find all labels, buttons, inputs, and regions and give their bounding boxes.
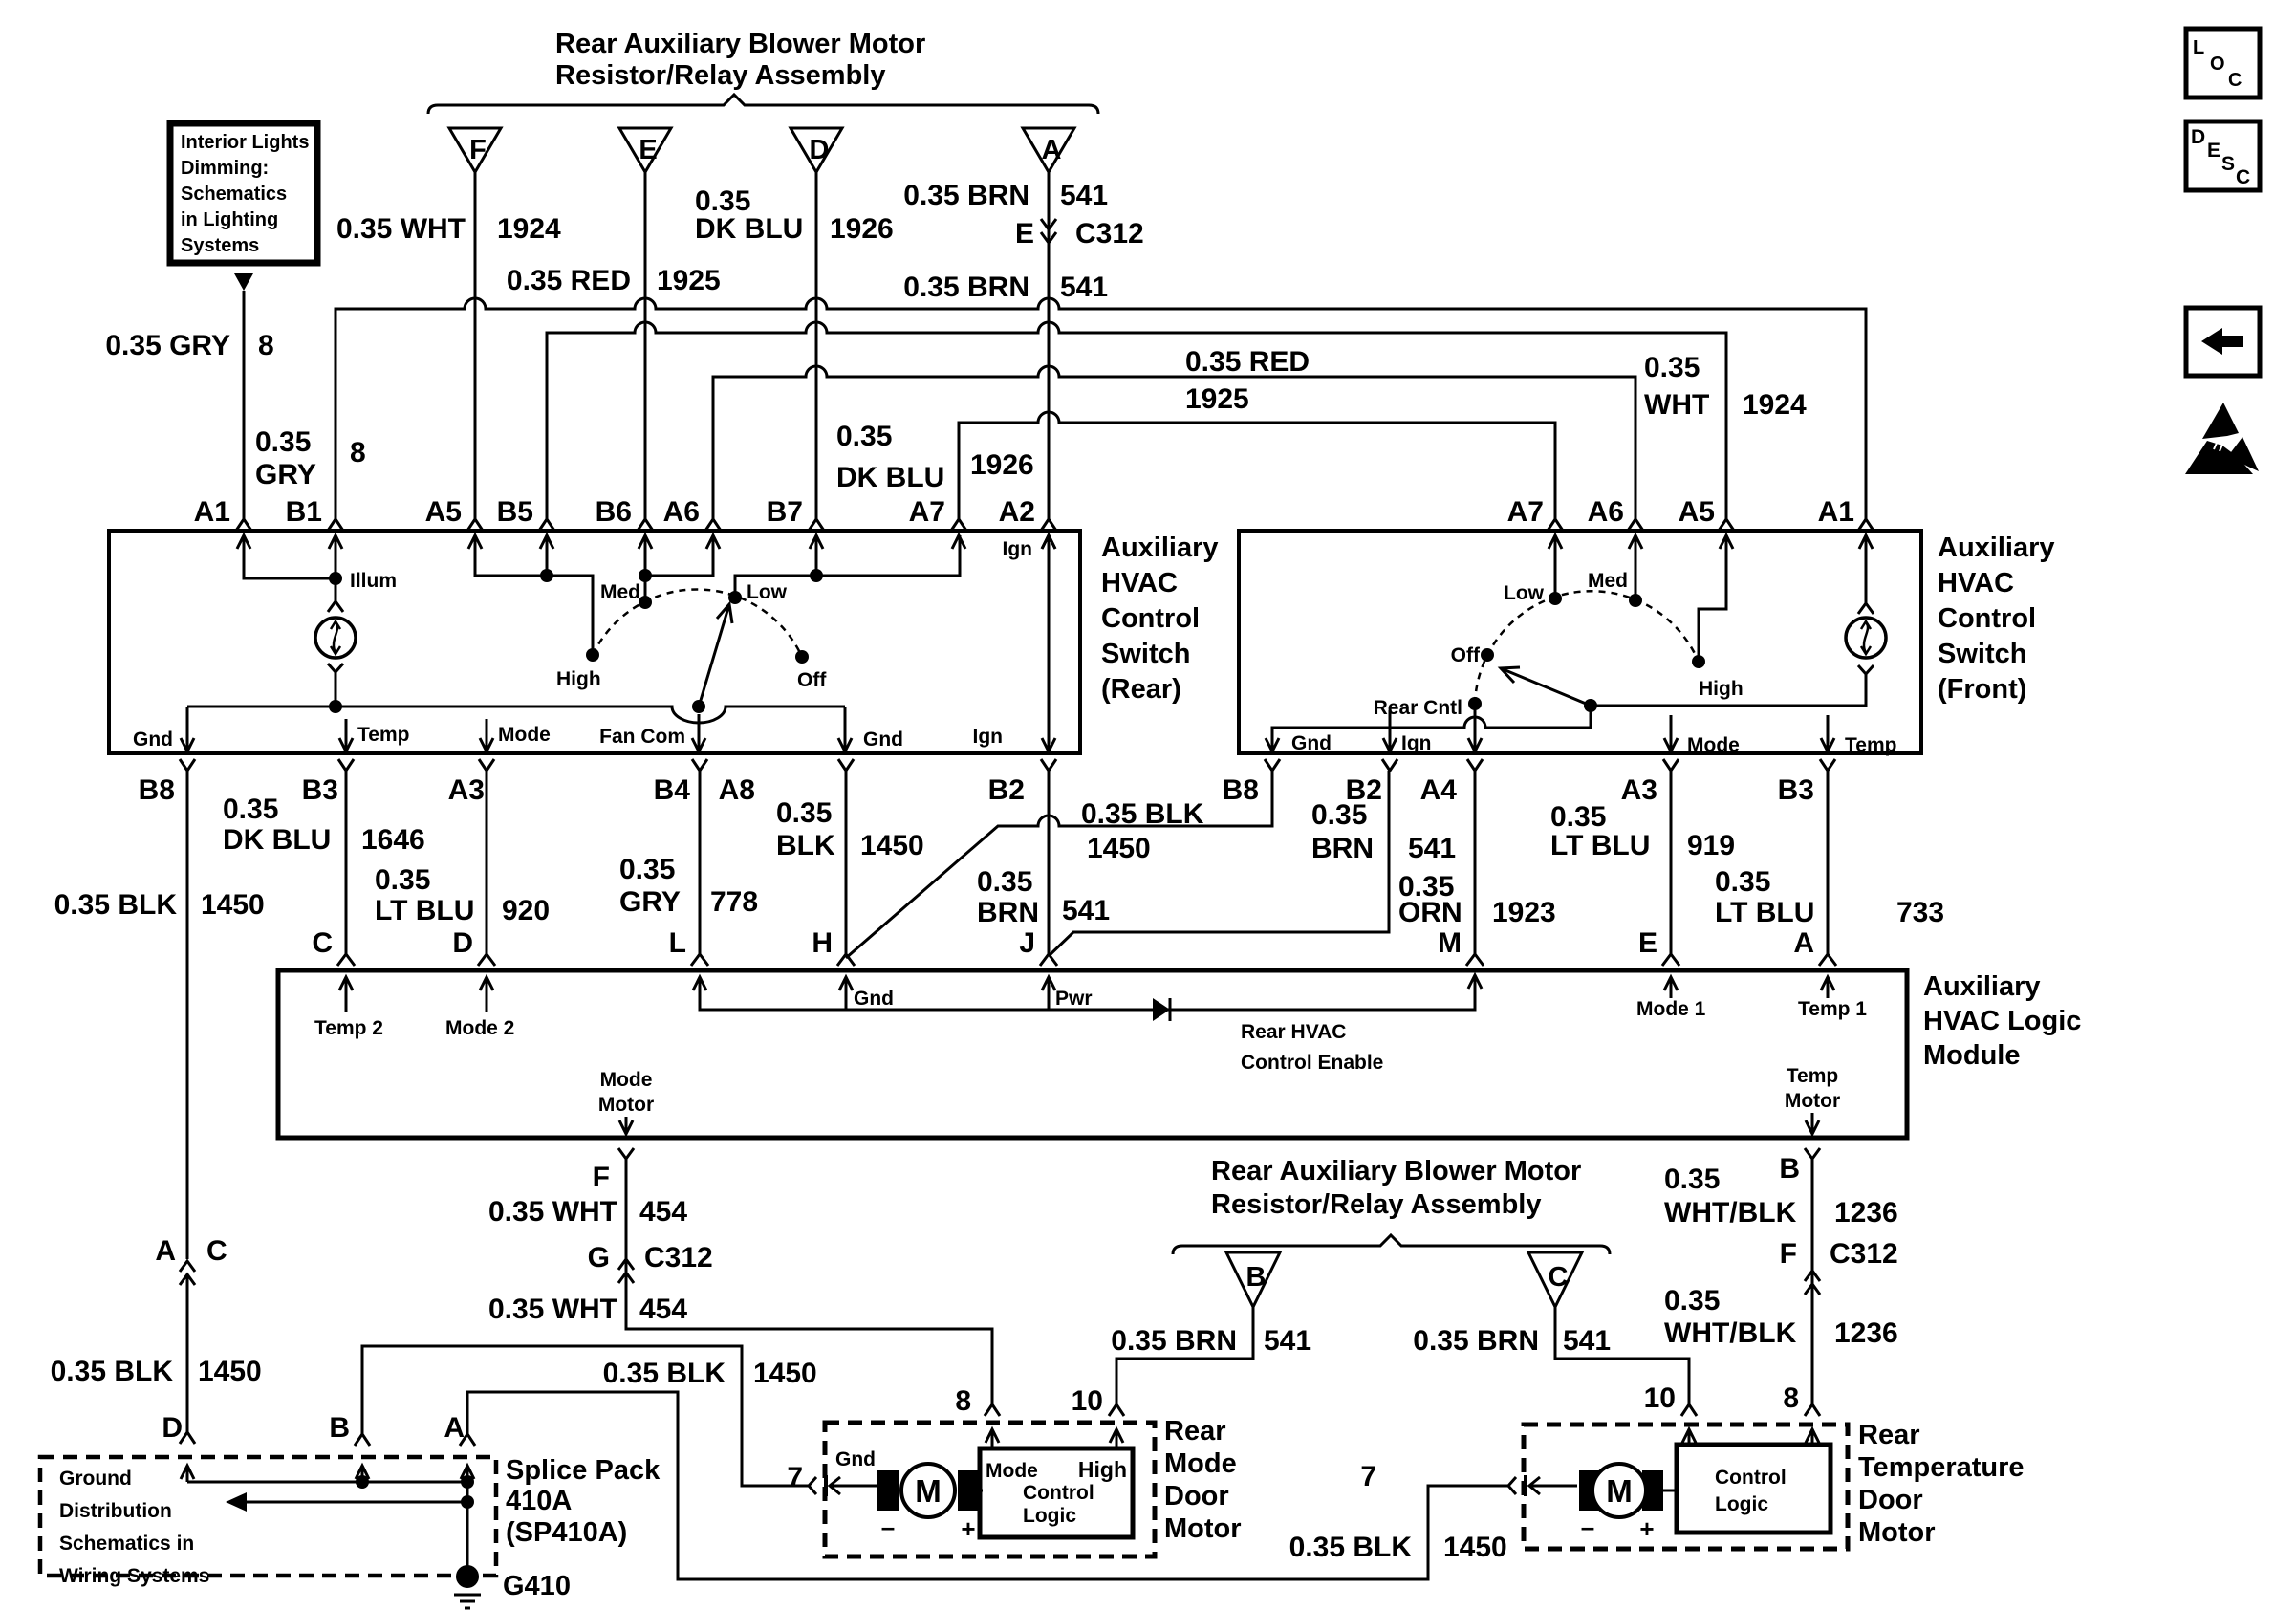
svg-text:454: 454 [639,1196,687,1228]
svg-text:1236: 1236 [1834,1317,1898,1349]
svg-text:Rear Auxiliary Blower Motor: Rear Auxiliary Blower Motor [1211,1156,1581,1186]
svg-text:541: 541 [1062,895,1110,926]
Mode Control Logic box [980,1448,1133,1537]
svg-text:733: 733 [1896,897,1944,928]
svg-text:Off: Off [1451,644,1481,666]
svg-text:Rear: Rear [1164,1416,1226,1447]
wire A6 front to Med contact [1635,535,1637,600]
pin F module bottom [593,1162,610,1193]
svg-text:B3: B3 [1778,774,1814,806]
selector wiper arrow front fan switch [1501,667,1591,706]
svg-text:High: High [1078,1457,1127,1482]
Rear Mode Door Motor dashed box M-mode [825,1423,1155,1556]
pin A5 rear switch top [425,496,483,549]
svg-text:Logic: Logic [1715,1493,1768,1515]
motor M temp door [1579,1464,1663,1517]
svg-text:WHT: WHT [1644,389,1709,421]
svg-text:1926: 1926 [830,213,894,245]
Control Logic box temp [1677,1445,1830,1533]
label Auxiliary HVAC Logic Module [1923,971,2081,1071]
rotary contact arc front fan switch S-front [1475,591,1699,704]
svg-text:Schematics: Schematics [181,184,287,205]
node B6 junction [639,569,652,582]
svg-text:0.35: 0.35 [375,864,430,896]
svg-text:Wiring Systems: Wiring Systems [59,1565,209,1587]
wire B6/A6 to Med contact [645,535,713,602]
Auxiliary HVAC Control Switch (Front) box U-front [1239,531,1921,753]
connector triangle A (Rear Auxiliary Blower Motor Resistor/Relay Assembly) [1023,128,1074,172]
label 0.35 DK BLU 1646 [223,794,425,856]
svg-text:B3: B3 [302,774,338,806]
svg-text:High: High [556,668,601,690]
label 0.35 DK BLU 1926 (A7 wire) [836,421,1034,493]
svg-text:Switch: Switch [1101,639,1190,669]
node Illum junction [329,570,397,592]
svg-text:A7: A7 [909,496,945,528]
wire splice bus D-B-A [187,1481,467,1484]
svg-text:A: A [1042,135,1062,165]
svg-text:0.35 GRY: 0.35 GRY [105,330,230,361]
pin Pwr module internal arrow [1042,977,1093,1010]
wire 919 LT BLU front A3 to module E [1670,771,1673,954]
svg-text:Motor: Motor [1164,1513,1242,1544]
svg-text:–: – [881,1512,895,1541]
svg-text:1925: 1925 [657,265,721,296]
svg-text:E: E [639,135,657,165]
svg-text:0.35 BRN: 0.35 BRN [1111,1325,1237,1357]
motor M mode door [877,1464,979,1517]
brace top resistor/relay assembly [428,95,1098,114]
svg-text:8: 8 [350,437,366,468]
wire lamp to gnd bus [328,664,343,707]
svg-text:1450: 1450 [1087,833,1151,864]
svg-text:BLK: BLK [776,830,835,861]
label 0.35 WHT 454 (lower) [488,1294,687,1325]
pin B1 rear switch top [286,496,343,549]
svg-text:0.35: 0.35 [776,797,832,829]
svg-text:A1: A1 [1818,496,1854,528]
connector triangle C (Rear Auxiliary Blower Motor Resistor/Relay Assembly) [1528,1252,1582,1307]
svg-text:Low: Low [1504,582,1545,604]
svg-text:Motor: Motor [598,1094,654,1116]
svg-text:D: D [162,1412,183,1444]
svg-text:Gnd: Gnd [863,729,903,751]
svg-text:1925: 1925 [1185,383,1249,415]
svg-text:778: 778 [710,886,758,918]
svg-text:0.35: 0.35 [1715,866,1770,898]
pin B2 rear switch bottom [988,759,1056,806]
pin 10 mode door motor [1072,1385,1124,1448]
svg-text:HVAC: HVAC [1938,568,2014,598]
node splice B junction [356,1475,369,1489]
Rear Temperature Door Motor dashed box M-temp [1524,1425,1848,1549]
svg-text:WHT/BLK: WHT/BLK [1664,1197,1797,1229]
wire 541 BRN module J to front B2 [1049,771,1389,956]
pin A5 front switch top [1679,496,1734,549]
wire 733 LT BLU front B3 to module A [1827,771,1830,954]
svg-text:Gnd: Gnd [854,988,894,1010]
pin Fan Com internal arrow [599,714,705,751]
svg-text:1450: 1450 [201,889,265,921]
svg-text:541: 541 [1060,272,1108,303]
wire A1 illum link [244,535,336,578]
svg-text:B8: B8 [1223,774,1259,806]
label 0.35 RED 1925 (row3 wire) [1185,346,1310,415]
wire A7 front to Low contact [1554,535,1557,598]
svg-text:0.35: 0.35 [977,866,1032,898]
pin B2 front switch bottom [1346,759,1397,806]
wire 8 GRY from Interior Lights ref to rear A1 [243,291,246,519]
svg-text:HVAC Logic: HVAC Logic [1923,1006,2081,1036]
connector triangle B (Rear Auxiliary Blower Motor Resistor/Relay Assembly) [1226,1252,1280,1307]
svg-text:0.35 BLK: 0.35 BLK [1289,1532,1413,1563]
label 0.35 LT BLU 920 [375,864,550,926]
node B5 junction [540,569,553,582]
label 0.35 BRN 541 (B2 wire) [977,866,1110,928]
label 0.35 ORN 1923 [1398,871,1556,928]
svg-text:0.35: 0.35 [223,794,278,825]
svg-text:E: E [2207,140,2220,162]
wire 1925 RED triangle E to rear B6 [644,172,647,519]
svg-text:Med: Med [1588,570,1628,592]
node B7 junction [810,569,823,582]
svg-text:1450: 1450 [860,830,924,861]
node Low contact [728,581,788,604]
svg-text:B1: B1 [286,496,322,528]
pin Temp rear internal arrow [339,719,409,751]
svg-text:A6: A6 [663,496,700,528]
pin A module top [1793,927,1836,966]
diode rear hvac control enable [1153,998,1170,1021]
svg-text:C312: C312 [1830,1238,1898,1270]
pin E module top [1638,927,1679,966]
svg-text:Mode 1: Mode 1 [1636,998,1706,1020]
svg-text:A4: A4 [1420,774,1458,806]
svg-text:BRN: BRN [1311,833,1374,864]
node Rear Cntl contact [1374,697,1482,719]
svg-text:in Lighting: in Lighting [181,209,278,230]
svg-text:M: M [915,1473,942,1509]
label 0.35 BLK 1450 (B8 wire lower) [51,1356,262,1387]
pin A1 rear switch top [194,496,251,549]
svg-text:1450: 1450 [1443,1532,1507,1563]
label Auxiliary HVAC Control Switch (Front) [1938,533,2055,705]
svg-text:LT BLU: LT BLU [375,895,474,926]
svg-text:A1: A1 [194,496,230,528]
wire mode motor to control logic [979,1490,983,1492]
label 0.35 WHT 1924 (front A5 wire) [1644,352,1807,421]
label 0.35 BRN 541 (C triangle wire) [1413,1325,1611,1357]
svg-text:Temp 1: Temp 1 [1798,998,1867,1020]
svg-text:D: D [452,927,473,959]
pin Temp front internal arrow [1821,715,1896,756]
svg-text:0.35 RED: 0.35 RED [507,265,631,296]
svg-text:F: F [593,1162,610,1193]
svg-text:Interior Lights: Interior Lights [181,132,309,153]
svg-text:DK BLU: DK BLU [223,824,331,856]
svg-text:Ign: Ign [973,726,1004,748]
pin A3 rear switch bottom [448,759,494,806]
node pivot front [1584,699,1597,712]
svg-text:Control: Control [1938,603,2036,634]
icon back arrow box [2186,308,2260,376]
pin B module bottom [1779,1153,1800,1185]
Auxiliary HVAC Control Switch (Rear) box U-rear [109,531,1080,753]
svg-text:C: C [2228,70,2242,91]
svg-text:A6: A6 [1588,496,1624,528]
pin A1 front switch top [1818,496,1874,549]
svg-text:L: L [2193,37,2204,58]
svg-text:0.35 BRN: 0.35 BRN [1413,1325,1539,1357]
wire front Gnd to pivot (hops A4) [1266,706,1591,754]
svg-text:Gnd: Gnd [133,729,173,751]
wire row3: rear A6 to front A6 (1925 RED) [713,366,1635,519]
pin Gnd rear left internal arrow [133,707,194,751]
svg-text:Ign: Ign [1003,538,1033,560]
pin Temp 1 module internal arrow [1798,977,1867,1020]
svg-text:1923: 1923 [1492,897,1556,928]
svg-text:Dimming:: Dimming: [181,158,269,179]
svg-text:7: 7 [787,1462,803,1493]
svg-text:S: S [2221,153,2235,175]
pin M module top [1438,927,1484,966]
connector C312 pin F on wire 1236 [1780,1238,1898,1295]
selector wiper arrow rear fan switch [699,604,732,707]
svg-text:Mode: Mode [498,724,551,746]
svg-text:Distribution: Distribution [59,1500,172,1522]
pin L module top [669,927,708,966]
svg-text:A5: A5 [425,496,462,528]
wire A5 front to High contact [1699,535,1726,662]
wire illum to lamp [328,578,343,612]
label 0.35 LT BLU 919 [1550,801,1735,861]
svg-text:919: 919 [1687,830,1735,861]
pin B3 front switch bottom [1778,759,1835,806]
wire 778 GRY rear B4 to module L [699,771,702,954]
wire 920 LT BLU rear A3 to module D [486,771,488,954]
node lamp gnd junction [329,700,342,713]
svg-text:J: J [1019,927,1035,959]
svg-text:541: 541 [1060,180,1108,211]
svg-text:0.35 RED: 0.35 RED [1185,346,1310,378]
svg-text:Rear HVAC: Rear HVAC [1241,1021,1346,1043]
pin A3 front switch bottom [1621,759,1679,806]
svg-text:0.35 BLK: 0.35 BLK [54,889,178,921]
svg-text:Motor: Motor [1785,1090,1840,1112]
svg-text:Control: Control [1101,603,1200,634]
wire 1450 BLK rear A8 to module H [845,771,848,954]
icon DESC box [2186,121,2260,190]
svg-text:C312: C312 [644,1242,713,1273]
off-page ground arrow [226,1492,467,1512]
svg-text:B: B [329,1412,350,1444]
svg-text:Fan Com: Fan Com [599,726,685,748]
svg-text:A: A [1793,927,1814,959]
wire 1450 BLK connector C to splice D [186,1274,189,1432]
svg-text:Ground: Ground [59,1468,132,1490]
svg-text:0.35 BLK: 0.35 BLK [51,1356,174,1387]
wire A4 Rear Cntl to pin [1468,704,1482,751]
wire 541 BRN triangle A to rear A2 [1048,172,1051,519]
pin A7 rear switch top [909,496,966,549]
svg-text:10: 10 [1644,1382,1676,1414]
svg-text:Resistor/Relay Assembly: Resistor/Relay Assembly [1211,1189,1541,1220]
pin A6 rear switch top [663,496,721,549]
svg-text:A2: A2 [999,496,1035,528]
wire row1: rear B1 to front A1 (8 GRY) [336,298,1866,519]
svg-text:M: M [1606,1473,1633,1509]
svg-text:Gnd: Gnd [1291,732,1332,754]
pin A6 front switch top [1588,496,1643,549]
svg-text:High: High [1699,678,1744,700]
svg-text:A7: A7 [1507,496,1544,528]
pin Mode 1 module internal arrow [1636,977,1706,1020]
pin Ign front internal arrow [1383,710,1432,754]
label bottom title Rear Auxiliary Blower Motor Resistor/Relay Assembly [1211,1156,1581,1220]
pin B4 rear switch bottom [654,759,707,806]
svg-text:Door: Door [1164,1481,1229,1512]
pin Temp Motor module internal arrow [1785,1065,1840,1134]
node High contact front [1692,655,1744,700]
svg-text:B: B [1779,1153,1800,1185]
label minus plus temp motor [1581,1512,1655,1543]
svg-text:Rear Cntl: Rear Cntl [1374,697,1462,719]
wire 541 BRN triangle B to mode motor pin 10 [1116,1307,1253,1404]
label Rear Temperature Door Motor [1858,1420,2025,1548]
svg-text:F: F [469,135,487,165]
svg-text:H: H [812,927,833,959]
svg-text:B: B [1246,1262,1267,1293]
svg-text:WHT/BLK: WHT/BLK [1664,1317,1797,1349]
note box Interior Lights Dimming reference [170,123,317,263]
svg-text:Auxiliary: Auxiliary [1101,533,1219,563]
svg-text:A3: A3 [448,774,485,806]
svg-text:BRN: BRN [977,897,1039,928]
node splice ground junction [461,1495,474,1509]
svg-text:0.35: 0.35 [836,421,892,452]
pin 7 temp door motor [1360,1461,1526,1496]
svg-text:Module: Module [1923,1040,2021,1071]
pin B3 rear switch bottom [302,759,354,806]
svg-text:C: C [206,1235,227,1267]
svg-text:Control Enable: Control Enable [1241,1052,1383,1074]
node Med contact [600,581,652,609]
label Gnd mode door motor [835,1448,876,1470]
svg-text:E: E [1638,927,1657,959]
svg-text:C: C [2236,166,2250,188]
svg-text:Pwr: Pwr [1055,988,1093,1010]
svg-text:10: 10 [1072,1385,1103,1417]
svg-text:Mode: Mode [600,1069,653,1091]
label top title Rear Auxiliary Blower Motor Resistor/Relay Assembly [555,29,925,91]
label 0.35 WHT/BLK 1236 (upper) [1664,1164,1898,1229]
svg-text:0.35 BRN: 0.35 BRN [903,272,1029,303]
svg-text:920: 920 [502,895,550,926]
pin Mode 2 module internal arrow [445,977,514,1039]
svg-text:HVAC: HVAC [1101,568,1178,598]
pin Mode Motor module internal arrow [598,1069,654,1134]
svg-text:B4: B4 [654,774,691,806]
node Off contact front [1451,644,1494,666]
pin 10 temp door motor [1644,1382,1697,1445]
svg-text:A: A [155,1235,176,1267]
svg-text:Temperature: Temperature [1858,1452,2025,1483]
connector triangle D (Rear Auxiliary Blower Motor Resistor/Relay Assembly) [791,128,842,172]
pin H module top [812,927,855,966]
label 0.35 WHT 1924 [336,213,561,245]
rotary contact arc rear fan switch S-rear [593,589,802,657]
pin J module top [1019,927,1057,966]
svg-text:G: G [588,1242,610,1273]
svg-text:(SP410A): (SP410A) [506,1517,627,1548]
pin Mode rear internal arrow [480,719,551,751]
label 0.35 BLK 1450 (splice B wire) [603,1358,817,1389]
svg-text:ORN: ORN [1398,897,1462,928]
svg-text:0.35: 0.35 [1550,801,1606,833]
wire 1924 WHT triangle F to rear A5 [474,172,477,519]
connector triangle F (Rear Auxiliary Blower Motor Resistor/Relay Assembly) [449,128,501,172]
icon ESD warning symbol [2185,402,2259,474]
svg-text:1646: 1646 [361,824,425,856]
svg-text:C: C [312,927,333,959]
label 0.35 BRN 541 (B triangle wire) [1111,1325,1311,1357]
label 0.35 GRY 778 [619,854,758,918]
connector C312 pin G on wire 454 [588,1242,713,1283]
svg-text:Motor: Motor [1858,1517,1936,1548]
connector triangle E (Rear Auxiliary Blower Motor Resistor/Relay Assembly) [619,128,671,172]
svg-text:C312: C312 [1075,218,1144,250]
wire 1450 BLK splice A to temp motor pin 7 [467,1392,1508,1579]
svg-text:LT BLU: LT BLU [1550,830,1650,861]
svg-text:Door: Door [1858,1485,1923,1515]
wire 1923 ORN front A4 to module M [1474,771,1477,954]
pin B5 rear switch top [497,496,554,549]
svg-text:Auxiliary: Auxiliary [1938,533,2055,563]
svg-text:O: O [2210,54,2225,75]
svg-text:Switch: Switch [1938,639,2026,669]
svg-text:Temp: Temp [357,724,409,746]
wire 1926 DK BLU triangle D to rear B7 [815,172,818,519]
svg-text:1924: 1924 [1743,389,1807,421]
Auxiliary HVAC Logic Module box U-module [278,970,1907,1138]
wire 454 WHT module F to mode motor pin 8 [618,1148,992,1404]
svg-text:Mode: Mode [1164,1448,1237,1479]
Ground Distribution reference dashed box [40,1457,496,1587]
pin A4 front switch bottom [1420,759,1483,806]
pin D module top [452,927,495,966]
label 0.35 BLK 1450 (H to front B8 wire) [1081,798,1204,864]
lamp EL-rear illumination [315,618,356,658]
wire row4: rear A7 to front A7 (1926 DK BLU) [959,412,1555,519]
label 0.35 BLK 1450 (B8 wire upper) [54,889,265,921]
svg-text:541: 541 [1563,1325,1611,1357]
wire 1450 BLK module H to front B8 [846,771,1272,958]
svg-text:+: + [1639,1514,1654,1543]
svg-text:C: C [1549,1262,1569,1293]
pin D splice pack [162,1412,195,1482]
svg-text:Rear Auxiliary Blower Motor: Rear Auxiliary Blower Motor [555,29,925,59]
lamp EL-front illumination [1846,618,1886,658]
wire motor minus lead arrow mode [830,1477,877,1494]
svg-text:A5: A5 [1679,496,1715,528]
label Rear HVAC Control Enable [1241,1021,1383,1074]
svg-text:Mode: Mode [986,1460,1038,1482]
svg-text:Control: Control [1023,1482,1094,1504]
node Off contact rear [795,650,827,691]
svg-text:Gnd: Gnd [835,1448,876,1470]
label Rear Mode Door Motor [1164,1416,1242,1544]
svg-text:E: E [1015,218,1034,250]
